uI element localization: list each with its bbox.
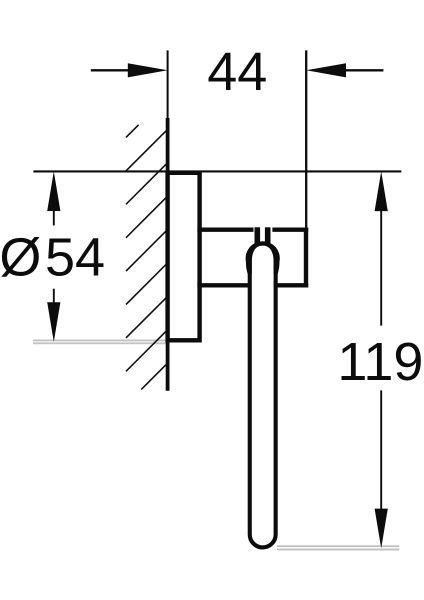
holder body bottom edge <box>197 283 308 287</box>
wall plate (side view rectangle) <box>168 173 200 340</box>
paper holder loop (elongated ring) <box>250 257 276 547</box>
dim 119: lower stem <box>380 390 382 509</box>
holder body top edge (with gap at post) <box>197 227 253 231</box>
dim 54: lower stem <box>53 289 55 303</box>
dim 119: down arrow <box>375 509 388 549</box>
dim 44: right arrow (points left) <box>306 63 346 77</box>
dim 119: up arrow <box>375 171 388 211</box>
holder body right edge <box>304 228 308 288</box>
wall hatching <box>126 125 166 390</box>
extension line 44 left (above wall) <box>167 50 169 120</box>
extension line 44 right <box>305 50 307 228</box>
dim 54: up arrow <box>47 171 60 211</box>
dim 44: left arrow (points right) <box>128 63 168 77</box>
svg-text:119: 119 <box>337 332 423 392</box>
dim 119: upper stem <box>380 210 382 326</box>
grey extension line (bottom of loop, y=548) <box>277 546 399 549</box>
post left bar <box>255 227 261 244</box>
dim 54: upper stem <box>53 210 55 225</box>
top extension line (top of fixture, y=171.4) <box>33 170 401 172</box>
svg-text:Ø54: Ø54 <box>0 228 105 288</box>
dim 44: right tail line <box>345 69 383 71</box>
grey extension line (bottom of plate, y=342) <box>33 340 167 343</box>
loop top cap (thick dome) <box>246 241 280 274</box>
svg-text:44: 44 <box>207 42 267 102</box>
wall face line <box>166 118 170 391</box>
post right bar <box>265 227 271 244</box>
dim 54: down arrow <box>47 302 60 342</box>
dim 44: left tail line <box>91 69 130 71</box>
